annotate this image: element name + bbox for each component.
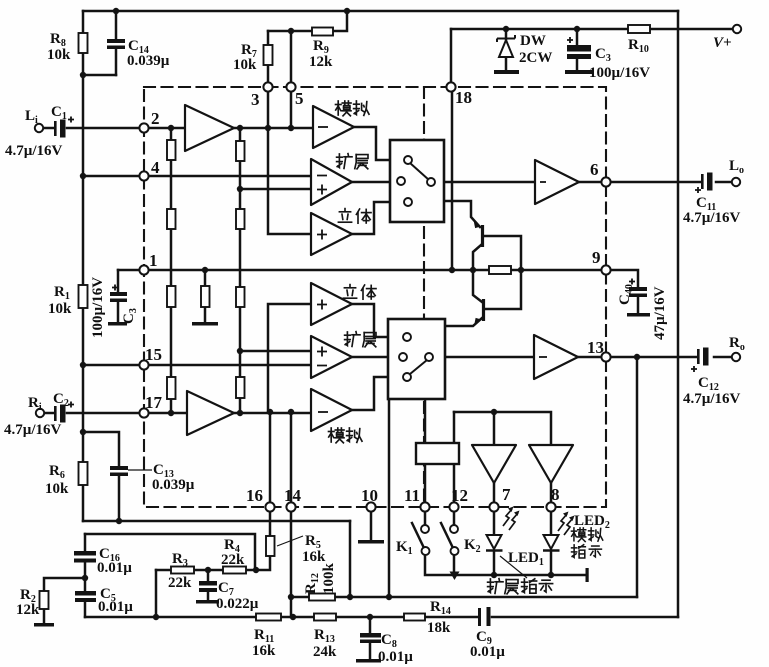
pin 4: [139, 171, 148, 180]
svg-text:16: 16: [246, 486, 263, 505]
wire: C16/C5 column: [84, 534, 87, 617]
resistor ladder a2: [167, 209, 176, 229]
pin 14: [286, 502, 295, 511]
capacitor C7 0.022u: [199, 581, 217, 586]
resistor R10: [628, 25, 650, 33]
wire: LED bottom rail: [454, 574, 587, 577]
svg-text:6: 6: [590, 160, 599, 179]
pin 17: [139, 408, 148, 417]
terminal V+: [733, 25, 741, 33]
pin 15: [139, 360, 148, 369]
wire: y31 link R7-R9: [268, 30, 312, 33]
wire: C14 bottom lead: [115, 49, 118, 75]
resistor R11 16k: [256, 614, 281, 621]
op-amp analog L: [313, 106, 354, 148]
driver block rectangle: [416, 443, 459, 464]
wire: y597 rail: [291, 596, 637, 599]
pin 8: [546, 502, 555, 511]
wire: Q1 emitter link from SW1: [444, 201, 480, 227]
wire: Li to C1: [43, 127, 53, 130]
transistor Q1: [475, 223, 483, 248]
wire: K2 leads: [453, 511, 456, 575]
svg-text:13: 13: [587, 338, 604, 357]
LED1 light arrows: [503, 507, 520, 531]
svg-text:100µ/16V: 100µ/16V: [589, 65, 650, 81]
wire: K2 blade: [441, 523, 453, 548]
pin 16: [265, 502, 274, 511]
wire: Ri to C2: [45, 412, 53, 415]
wire: expand2 plus input: [240, 350, 311, 353]
capacitor C11 4.7u: [701, 174, 704, 189]
terminal Li: [35, 124, 43, 132]
svg-text:47µ/16V: 47µ/16V: [652, 286, 668, 340]
svg-text:17: 17: [145, 393, 163, 412]
svg-text:100k: 100k: [321, 563, 337, 595]
wire: pin5 riser: [290, 31, 293, 83]
wire: pin15 line to expand2 minus: [83, 364, 311, 367]
wire: ladder column x171: [170, 128, 173, 413]
svg-text:100µ/16V: 100µ/16V: [90, 277, 106, 338]
wire: Q2 collector: [473, 270, 482, 302]
wire: R6 bottom to rail: [82, 485, 85, 521]
op-amp stereo R: [311, 283, 352, 325]
pin 1: [139, 265, 148, 274]
svg-text:2: 2: [151, 109, 160, 128]
svg-text:1: 1: [149, 251, 158, 270]
resistor R13 24k: [314, 614, 336, 621]
op-amp stereo L: [311, 213, 352, 255]
capacitor plus marks: [68, 117, 74, 123]
capacitor C2 4.7u: [54, 406, 57, 421]
wire: R7 bottom lead to pin3: [267, 65, 270, 83]
pin 7: [489, 502, 498, 511]
svg-text:10: 10: [361, 486, 378, 505]
resistor R7 10k: [264, 45, 273, 65]
svg-text:10k: 10k: [47, 47, 71, 63]
op-amp output R pin13: [534, 335, 578, 379]
svg-text:0.01µ: 0.01µ: [378, 649, 413, 665]
resistor ladder a3: [167, 286, 176, 307]
svg-text:3: 3: [251, 90, 260, 109]
wire: pin1 bias line to pin9: [118, 269, 602, 272]
LED2 symbol: [543, 535, 560, 551]
capacitor C8 0.01u: [360, 633, 381, 638]
pin 3: [263, 82, 272, 91]
wire: SW2 output to out amp13: [433, 356, 534, 359]
wire: SW1 output to out amp: [435, 181, 535, 184]
svg-text:22k: 22k: [221, 552, 245, 568]
wire: ladder column x240: [239, 128, 242, 412]
wire: y617 bottom rail: [85, 616, 678, 619]
label stereo bottom: [343, 285, 356, 299]
wire: top rail: [83, 10, 678, 13]
resistor R8 10k: [79, 33, 88, 53]
wire: C8 leads: [369, 617, 372, 659]
resistor ladder b1: [236, 141, 245, 161]
pin 18: [446, 82, 455, 91]
op-amp output L pin6: [535, 160, 579, 204]
ground bar mid bias resistor: [192, 322, 218, 326]
svg-text:24k: 24k: [313, 644, 337, 660]
svg-text:4.7µ/16V: 4.7µ/16V: [4, 422, 62, 438]
svg-text:16k: 16k: [302, 549, 326, 565]
pin 13: [601, 352, 610, 361]
resistor ladder a1: [167, 140, 176, 160]
capacitor C12 4.7u: [697, 349, 700, 364]
wire: buffer2 output to analog2: [234, 412, 311, 415]
pin 9: [601, 265, 610, 274]
resistor R1 10k: [79, 285, 88, 308]
op-amp analog R: [311, 389, 352, 431]
wire: C1 to pin2: [67, 127, 144, 130]
wire: LED2 leads: [550, 483, 553, 575]
capacitor C9 0.01u series: [478, 608, 481, 626]
SW2 lever: [410, 360, 427, 374]
capacitor C40 47u: [629, 287, 647, 291]
transistor Q2: [475, 299, 484, 324]
svg-text:12k: 12k: [309, 54, 333, 70]
label stereo top: [338, 209, 351, 223]
pin 12: [449, 502, 458, 511]
resistor internal bias: [489, 266, 511, 274]
resistor R9 12k: [312, 28, 333, 36]
label expand indicator: [488, 579, 503, 594]
svg-text:0.01µ: 0.01µ: [97, 560, 132, 576]
wire: analog2 out to SW2 bottom: [352, 377, 404, 410]
LED driver comparator 1: [472, 445, 516, 483]
pin 11: [420, 502, 429, 511]
K1 contact circles: [421, 525, 429, 533]
wire: Q1 base: [484, 236, 521, 266]
wire: R1 to pin15 node: [82, 308, 85, 365]
SW1 lever: [410, 163, 429, 180]
svg-text:14: 14: [284, 486, 302, 505]
pointer line from C13 to label: [128, 469, 152, 471]
wire: buffer output to analog amp: [234, 127, 313, 130]
svg-text:0.039µ: 0.039µ: [152, 477, 195, 493]
terminal Lo: [732, 178, 740, 186]
wire: stereo2 out to SW2 top: [352, 304, 404, 337]
svg-text:DW: DW: [520, 33, 546, 49]
wire: left bias column to pin4 node: [82, 75, 85, 285]
svg-text:10k: 10k: [48, 301, 72, 317]
wire: C13 bottom lead: [118, 476, 121, 521]
resistor ladder b4: [236, 377, 245, 398]
wire: zener leads: [505, 29, 508, 70]
svg-text:11: 11: [404, 486, 420, 505]
K2 junction arrow: [450, 572, 460, 581]
resistor R14 18k: [404, 614, 425, 621]
label analog indicator: [571, 528, 585, 542]
label expand bottom: [345, 332, 360, 347]
wire: R6 branch: [82, 432, 85, 462]
ground bar of C7: [196, 600, 219, 604]
wire: right outer rail: [677, 11, 680, 617]
resistor R5 16k: [266, 536, 275, 556]
zener ground bar: [494, 70, 519, 74]
svg-text:10k: 10k: [45, 481, 69, 497]
wire: R3 left riser: [155, 570, 158, 617]
wire: Q1 collector: [473, 245, 481, 270]
pin 6: [601, 177, 610, 186]
wire: analog amp out to SW1 top: [354, 127, 404, 160]
svg-text:18: 18: [455, 88, 472, 107]
ground bar of C3 top: [565, 70, 592, 74]
wire: pin13 riser down to LED box rail: [636, 357, 639, 597]
wire: expand plus input: [240, 188, 311, 191]
resistor R2 12k: [40, 591, 49, 609]
svg-text:18k: 18k: [427, 620, 451, 636]
switch box SW2: [388, 319, 445, 399]
ground bar pin10: [358, 540, 384, 544]
svg-text:4: 4: [151, 158, 160, 177]
wire: riser x350: [349, 521, 352, 597]
wire: expand2 out to SW2 mid: [352, 356, 399, 359]
wire: y521 rail: [83, 520, 350, 523]
wire: pin17 to buffer2: [148, 412, 187, 415]
op-amp expand R: [311, 336, 352, 378]
LED1 symbol: [486, 535, 503, 551]
inner dashed divider: [423, 87, 425, 507]
ground bar of C40: [627, 313, 650, 317]
pointer line to R5 label: [277, 536, 303, 546]
wire: LED box left riser: [388, 399, 391, 597]
label analog bottom: [329, 428, 345, 443]
wire: pin15 node down to R6/C13 node: [82, 365, 85, 432]
LED2 light arrows: [558, 512, 575, 536]
wire: R9 right riser to rail: [333, 11, 347, 31]
pin 10: [366, 502, 375, 511]
label analog top: [336, 101, 352, 116]
K2 contact circles: [450, 525, 458, 533]
svg-text:10k: 10k: [233, 57, 257, 73]
IC dashed outline: [144, 87, 606, 507]
wire: pin3 column down to stereo input: [268, 91, 311, 234]
svg-text:LED1: LED1: [508, 550, 544, 568]
capacitor C13 0.039u: [110, 466, 128, 470]
pointer line from LED1 to expand-indicator label: [500, 556, 527, 578]
wire: R3 R4 line: [156, 569, 256, 572]
wire: driver rect leads: [425, 399, 454, 503]
wire: pin2 to buffer input: [148, 127, 185, 130]
pin 5: [286, 82, 295, 91]
junction dots: [113, 8, 119, 14]
svg-text:7: 7: [502, 485, 511, 504]
SW2 contact circles: [403, 333, 411, 341]
resistor R6 10k: [79, 462, 88, 485]
wire: Q2 base: [485, 270, 521, 309]
wire: K1 leads: [425, 511, 454, 575]
ground tick LED rail: [586, 568, 589, 582]
svg-text:0.01µ: 0.01µ: [98, 599, 133, 615]
ground bar of C3 pin1: [108, 322, 127, 326]
svg-text:8: 8: [551, 485, 560, 504]
svg-text:2CW: 2CW: [519, 50, 552, 66]
svg-text:12: 12: [451, 486, 468, 505]
svg-text:22k: 22k: [168, 575, 192, 591]
svg-text:0.039µ: 0.039µ: [127, 53, 170, 69]
wire: pin16 column with R5: [256, 412, 270, 570]
svg-text:0.01µ: 0.01µ: [470, 644, 505, 660]
zener diode DW 2CW: [497, 35, 515, 57]
op-amp input buffer L: [185, 105, 234, 151]
wire: R8 column top: [82, 11, 85, 33]
op-amp input buffer R: [187, 391, 234, 435]
capacitor C16 0.01u: [74, 551, 96, 556]
wire: column x268 lower to stereo2 input: [268, 304, 311, 412]
resistor ladder a4: [167, 377, 176, 399]
wire: pin18 riser: [450, 29, 453, 83]
wire: K1 blade: [412, 523, 424, 548]
svg-text:4.7µ/16V: 4.7µ/16V: [683, 391, 741, 407]
wire: C14 top lead: [115, 11, 118, 39]
wire: pin4 line to expand minus: [83, 175, 311, 178]
resistor R4 22k: [223, 567, 246, 574]
capacitor C5 0.01u: [75, 591, 96, 596]
wire: R8 bottom to C14 node: [83, 53, 116, 75]
wire: C16 top link to R4: [85, 534, 255, 570]
op-amp polarity marks: [318, 126, 328, 128]
resistor ladder b2: [236, 209, 245, 229]
svg-text:12k: 12k: [16, 602, 40, 618]
svg-text:5: 5: [295, 89, 304, 108]
svg-text:4.7µ/16V: 4.7µ/16V: [683, 210, 741, 226]
capacitor C14 0.039u: [107, 39, 125, 43]
wire: expand amp out to SW1 mid: [352, 181, 397, 184]
wire: pin10 ground: [370, 511, 373, 540]
svg-text:9: 9: [592, 248, 601, 267]
resistor mid bias: [201, 286, 210, 307]
wire: C13 branch top: [83, 432, 119, 466]
wire: LED1 leads: [493, 483, 496, 575]
svg-text:V+: V+: [713, 35, 732, 51]
wire: pin5 down to analog input line: [290, 91, 293, 128]
terminal Ro: [732, 353, 740, 361]
terminal Ri: [36, 409, 44, 417]
wire: Q2 emitter link to SW2: [445, 318, 482, 326]
LED driver comparator 2: [529, 445, 573, 483]
capacitor C3 100u/16V top: [567, 45, 591, 52]
switch box SW1: [390, 140, 444, 222]
wire: out amp to pin6 and Lo: [579, 181, 731, 184]
svg-text:4.7µ/16V: 4.7µ/16V: [5, 143, 63, 159]
ground bar of C8: [356, 659, 381, 663]
wire: C3 leads: [576, 29, 579, 70]
svg-text:15: 15: [145, 345, 162, 364]
resistor R3 22k: [171, 567, 194, 574]
wire: stereo amp out to SW1 bottom: [352, 202, 404, 234]
wire: pin14 column: [290, 412, 293, 617]
resistor ladder b3: [236, 287, 245, 307]
svg-text:16k: 16k: [252, 643, 276, 659]
wire: C7 leads: [207, 570, 210, 600]
op-amp expand L: [311, 159, 352, 205]
wire: LED comparator supply line: [454, 412, 551, 445]
wire: R2 branch: [44, 578, 85, 623]
wire: C2 to pin17: [67, 412, 140, 415]
wire: mid bias resistor to ground: [204, 270, 207, 322]
capacitor C3 100u near pin1: [110, 292, 127, 296]
wire: V+ rail: [451, 28, 732, 31]
wire: R7 top lead: [267, 31, 270, 45]
wire: pin18 column: [451, 91, 454, 270]
wire: pin9 stub to C40: [610, 270, 638, 313]
capacitor C1 4.7u: [54, 121, 57, 136]
pin 2: [139, 123, 148, 132]
label expand top: [337, 154, 352, 169]
wire: C3 pin1 leads: [117, 270, 120, 322]
resistor R12 100k: [309, 594, 335, 601]
svg-text:0.022µ: 0.022µ: [216, 596, 259, 612]
ground bar of R2: [34, 623, 54, 627]
SW1 contact circles: [404, 156, 412, 164]
wire: out amp to pin13 and Ro: [578, 356, 731, 359]
